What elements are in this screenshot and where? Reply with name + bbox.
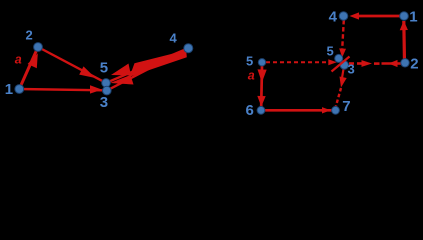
wire edge 5->6 line <box>260 66 263 107</box>
cluster node A right <box>335 54 343 62</box>
wire edge 2->1 arrowhead <box>400 21 408 31</box>
label node 5 left <box>100 60 108 77</box>
wire edge 2->5 arrowhead <box>79 66 95 78</box>
wire edge 4->A line <box>342 20 344 51</box>
node 5 left cluster <box>102 79 111 88</box>
svg-text:4: 4 <box>329 8 338 25</box>
wire edge 2->B arrowhead <box>389 60 398 67</box>
label node 1 right <box>409 8 417 25</box>
wire edge 4->3 line <box>107 48 189 90</box>
label node 2 right <box>410 55 418 72</box>
label node 4 right <box>329 8 338 25</box>
svg-text:3: 3 <box>100 94 108 111</box>
wire edge 4->3 arrowhead <box>110 75 134 85</box>
cluster slash stroke <box>332 57 350 72</box>
node 2 right <box>401 59 409 67</box>
svg-text:2: 2 <box>410 55 418 72</box>
label a2 (edge 5->6) <box>248 69 255 83</box>
svg-text:5: 5 <box>327 43 334 58</box>
svg-text:1: 1 <box>5 81 13 98</box>
cluster backslash stroke <box>337 56 348 67</box>
wire edge 4->A arrowhead <box>339 48 346 57</box>
svg-text:1: 1 <box>409 8 417 25</box>
node 7 <box>332 106 340 114</box>
label node 4 left <box>170 31 178 46</box>
wire edge B->7 line <box>336 66 344 107</box>
wire edge 1->4 line (top) <box>357 15 404 18</box>
node 1 right <box>400 12 409 21</box>
label node 7 <box>342 98 350 115</box>
node 5 right <box>258 59 265 66</box>
wire edge 2->5 line <box>38 47 106 83</box>
node 3 left cluster <box>103 86 112 95</box>
svg-text:3: 3 <box>348 62 355 77</box>
wire edge 4->5 arrowhead <box>111 64 131 76</box>
node 4 left <box>184 44 193 53</box>
wire edge 1->2 arrowhead <box>28 53 38 68</box>
wire edge 4->5 line <box>106 48 188 83</box>
node 2 <box>34 43 43 52</box>
label node 2 <box>26 28 33 43</box>
svg-text:a: a <box>248 69 255 83</box>
svg-text:4: 4 <box>170 31 178 46</box>
wire edge 1->2 line <box>19 47 38 89</box>
label node 1 <box>5 81 13 98</box>
wire edge B->2 line <box>382 62 402 64</box>
node 6 <box>257 106 265 114</box>
svg-text:7: 7 <box>342 98 350 115</box>
node 4 right <box>339 12 348 21</box>
wire edge 5->6 lower arrowhead <box>257 96 265 107</box>
cluster node B right <box>340 61 348 69</box>
label node 3 left <box>100 94 108 111</box>
wire edge 5->6 upper arrowhead <box>258 69 267 82</box>
wire edge 5->A dashed line <box>266 61 328 63</box>
label cluster 3 right <box>348 62 355 77</box>
wire edge B->7 arrowhead <box>340 77 347 88</box>
svg-text:a: a <box>15 52 22 66</box>
wire edge 2->1 line (right) <box>402 21 406 63</box>
wire edge 1->4 arrowhead <box>350 12 360 19</box>
wire edge 1->3 line <box>19 89 104 90</box>
wire edge B->2 mid arrowhead <box>362 60 373 67</box>
wire bundle 4->cluster thick wedge <box>130 50 187 77</box>
wire edge 1->3 arrowhead <box>90 85 102 93</box>
label cluster 5 right <box>327 43 334 58</box>
label a (edge 1->2) <box>15 52 22 66</box>
svg-text:6: 6 <box>246 102 254 119</box>
svg-text:2: 2 <box>26 28 33 43</box>
label node 6 <box>246 102 254 119</box>
svg-text:5: 5 <box>246 54 253 69</box>
wire edge B->2 dashes <box>349 62 380 65</box>
svg-text:5: 5 <box>100 60 108 77</box>
wire edge 6->7 arrowhead <box>322 107 331 113</box>
node 1 <box>15 85 24 94</box>
label node 5 right <box>246 54 253 69</box>
wire edge 5->A arrowhead <box>328 59 337 65</box>
wire edge 6->7 line <box>265 109 332 112</box>
